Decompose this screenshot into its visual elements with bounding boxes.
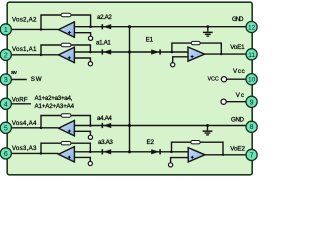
svg-text:a2.A2: a2.A2 bbox=[97, 14, 112, 21]
wire A1 feedback tap bbox=[41, 45, 61, 55]
wire central bus bbox=[129, 27, 131, 152]
label Vos1,A1 bbox=[12, 46, 37, 53]
diode a1.A1 bbox=[102, 49, 112, 54]
resistor A2 feedback bbox=[61, 13, 71, 16]
terminal circle A2 non-inverting bbox=[89, 36, 93, 40]
svg-text:Vcc: Vcc bbox=[233, 68, 245, 75]
svg-text:8: 8 bbox=[250, 124, 254, 131]
svg-text:GND: GND bbox=[232, 16, 244, 23]
svg-text:VoE2: VoE2 bbox=[230, 145, 245, 152]
svg-text:12: 12 bbox=[248, 25, 256, 32]
svg-text:7: 7 bbox=[250, 152, 254, 159]
label E2 bbox=[147, 139, 155, 146]
wire A3 inverting line to E2 amp bbox=[74, 151, 188, 153]
label E1 bbox=[146, 37, 154, 44]
terminal circle E1 non-inverting bbox=[171, 63, 175, 67]
wire A4 non-inverting input to terminal bbox=[74, 131, 90, 135]
wire A2 feedback tap bbox=[41, 15, 61, 29]
svg-text:5: 5 bbox=[4, 125, 8, 132]
svg-text:A1+a2+a3+a4,: A1+a2+a3+a4, bbox=[35, 95, 73, 102]
wire A3 feedback tap bbox=[41, 143, 61, 153]
svg-text:Vc: Vc bbox=[236, 92, 244, 99]
wire pin1 to amp A2 output bbox=[6, 28, 59, 30]
terminal circle A3 non-inverting bbox=[88, 161, 92, 165]
svg-text:Vos1,A1: Vos1,A1 bbox=[12, 46, 37, 53]
op-amp A3 bbox=[59, 147, 75, 162]
ground symbol at pin 8 rail bbox=[203, 124, 213, 136]
svg-text:A1+A2+A3+A4: A1+A2+A3+A4 bbox=[35, 103, 75, 110]
op-amp A2 bbox=[59, 22, 75, 37]
label GND pin8 bbox=[231, 117, 245, 124]
wire E2 output to pin 7 bbox=[205, 154, 246, 156]
op-amp A4 bbox=[59, 121, 75, 136]
label sum line 1 bbox=[35, 95, 73, 102]
diode a4.A4 bbox=[102, 123, 112, 128]
terminal circle A4 non-inverting bbox=[88, 135, 92, 139]
svg-text:VCC: VCC bbox=[208, 76, 219, 82]
svg-text:2: 2 bbox=[4, 52, 8, 59]
label Vos2,A2 bbox=[12, 17, 37, 24]
wire E2 non-inverting input to terminal bbox=[171, 158, 189, 163]
svg-text:SW: SW bbox=[31, 76, 42, 83]
label VCC terminal bbox=[208, 76, 219, 82]
wire pin4 VoRF stub bbox=[6, 103, 31, 105]
label SW pin bbox=[11, 70, 17, 76]
wire pin2 to amp A1 output bbox=[6, 54, 59, 56]
label SW net bbox=[31, 76, 42, 83]
wire A2 inverting line / GND rail to pin 12 bbox=[74, 26, 246, 28]
pin 4 bbox=[0, 98, 11, 109]
svg-text:E1: E1 bbox=[146, 37, 154, 44]
diode E1 bbox=[151, 49, 161, 54]
svg-text:GND: GND bbox=[231, 117, 245, 124]
label Vcc pin10 bbox=[233, 68, 245, 75]
wire A1 non-inverting input to terminal bbox=[74, 58, 90, 62]
svg-text:a1.A1: a1.A1 bbox=[96, 39, 111, 46]
label Vos3,A3 bbox=[12, 145, 37, 152]
wire pin6 to amp A3 output bbox=[6, 152, 59, 154]
wire A2 non-inverting input to terminal bbox=[74, 33, 90, 37]
resistor A1 feedback bbox=[61, 43, 71, 46]
svg-text:11: 11 bbox=[248, 52, 255, 59]
svg-text:1: 1 bbox=[4, 27, 8, 34]
wire A2 resistor to inverting input bbox=[71, 15, 91, 27]
label VoE1 bbox=[230, 44, 245, 51]
pin 7 bbox=[246, 149, 257, 160]
pin 9 bbox=[246, 96, 257, 107]
label a2.A2 bbox=[97, 14, 112, 21]
wire E1 non-inverting input to terminal bbox=[173, 57, 188, 63]
ground symbol at pin 12 rail bbox=[203, 25, 213, 37]
wire A1 resistor to inverting input bbox=[71, 45, 90, 52]
label a3.A3 bbox=[98, 139, 113, 146]
pin 6 bbox=[0, 148, 11, 159]
svg-text:VoE1: VoE1 bbox=[230, 44, 245, 51]
label a1.A1 bbox=[96, 39, 111, 46]
svg-text:Vos3,A3: Vos3,A3 bbox=[12, 145, 37, 152]
label a4.A4 bbox=[97, 115, 112, 122]
label VoE2 bbox=[230, 145, 245, 152]
svg-text:10: 10 bbox=[248, 77, 256, 84]
wire E1 feedback tap and resistor loop bbox=[172, 43, 221, 54]
label GND pin12 bbox=[232, 16, 244, 23]
wire A4 inverting line / GND rail to pin 8 bbox=[74, 125, 246, 127]
svg-text:a4.A4: a4.A4 bbox=[97, 115, 112, 122]
label VoRF bbox=[12, 97, 28, 104]
terminal circle A1 non-inverting bbox=[88, 62, 92, 66]
wire E1 output to pin 11 bbox=[205, 53, 246, 55]
svg-text:3: 3 bbox=[4, 77, 8, 84]
resistor A3 feedback bbox=[61, 142, 71, 145]
label sum line 2 bbox=[35, 103, 75, 110]
svg-text:9: 9 bbox=[250, 99, 254, 106]
svg-text:6: 6 bbox=[4, 151, 8, 158]
pin 2 bbox=[0, 49, 11, 60]
terminal circle Vcc bbox=[221, 77, 226, 82]
diode a3.A3 bbox=[102, 149, 112, 154]
wire Vcc terminal to pin 10 bbox=[227, 78, 246, 80]
op-amp A1 bbox=[59, 47, 75, 62]
svg-text:a3.A3: a3.A3 bbox=[98, 139, 113, 146]
svg-text:E2: E2 bbox=[147, 139, 155, 146]
resistor A4 feedback bbox=[61, 114, 71, 117]
pin 10 bbox=[246, 74, 257, 85]
pin 1 bbox=[0, 24, 11, 35]
wire A4 feedback tap bbox=[41, 116, 61, 128]
pin 5 bbox=[0, 122, 11, 133]
op-amp E1 bbox=[188, 47, 205, 61]
wire A1 inverting line to E1 amp bbox=[74, 51, 188, 53]
pin 3 bbox=[0, 74, 11, 85]
op-amp E2 bbox=[188, 148, 205, 162]
resistor E1 feedback bbox=[191, 41, 200, 44]
wire pin3 SW stub bbox=[6, 79, 27, 81]
label Vc pin9 bbox=[236, 92, 244, 99]
wire A4 resistor to inverting input bbox=[71, 116, 90, 126]
svg-text:VoRF: VoRF bbox=[12, 97, 28, 104]
svg-text:Vos4,A4: Vos4,A4 bbox=[12, 120, 37, 127]
pin 12 bbox=[246, 21, 257, 32]
resistor E2 feedback bbox=[191, 141, 200, 144]
svg-text:4: 4 bbox=[4, 101, 8, 108]
wire Vc terminal to pin 9 bbox=[226, 101, 246, 103]
wire A3 non-inverting input to terminal bbox=[74, 157, 90, 161]
pin 11 bbox=[246, 49, 257, 60]
wire pin5 to amp A4 output bbox=[6, 127, 59, 129]
diode E2 bbox=[151, 149, 161, 154]
label Vos4,A4 bbox=[12, 120, 37, 127]
terminal circle E2 non-inverting bbox=[169, 163, 173, 167]
package outline U1 bbox=[7, 2, 252, 175]
svg-text:SW: SW bbox=[11, 70, 17, 76]
terminal circle Vc bbox=[221, 99, 226, 104]
pin 8 bbox=[246, 121, 257, 132]
wire E2 feedback tap and resistor loop bbox=[172, 142, 224, 155]
svg-text:Vos2,A2: Vos2,A2 bbox=[12, 17, 37, 24]
wire A3 resistor to inverting input bbox=[71, 143, 90, 152]
diode a2.A2 bbox=[102, 24, 112, 29]
